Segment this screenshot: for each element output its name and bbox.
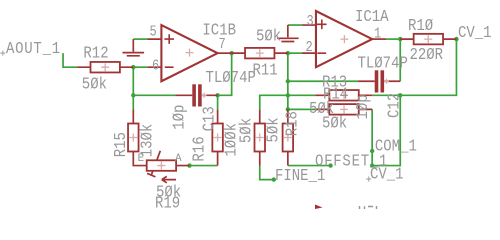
svg-text:R15: R15	[111, 132, 131, 157]
svg-text:CV_1: CV_1	[458, 23, 492, 43]
svg-text:7: 7	[219, 37, 226, 54]
svg-text:CV_1: CV_1	[370, 164, 404, 184]
svg-text:5: 5	[150, 25, 157, 42]
svg-text:AOUT_1: AOUT_1	[6, 39, 61, 59]
svg-text:R12: R12	[83, 43, 108, 63]
svg-text:TLØ74P: TLØ74P	[358, 53, 408, 73]
svg-text:R19: R19	[155, 193, 180, 209]
svg-text:R16: R16	[189, 136, 209, 161]
svg-text:3: 3	[307, 14, 314, 31]
svg-text:6: 6	[152, 58, 159, 75]
svg-text:22ØR: 22ØR	[410, 45, 444, 65]
svg-text:E: E	[138, 153, 145, 165]
svg-text:1Øp: 1Øp	[353, 94, 373, 119]
svg-text:5Øk: 5Øk	[322, 113, 347, 133]
svg-text:A: A	[175, 153, 182, 165]
svg-text:5Øk: 5Øk	[256, 26, 281, 46]
svg-text:5Øk: 5Øk	[263, 117, 283, 142]
svg-text:C13: C13	[199, 106, 219, 131]
svg-text:R11: R11	[253, 60, 278, 80]
svg-text:COM_1: COM_1	[375, 136, 417, 156]
svg-text:2: 2	[306, 40, 313, 57]
svg-text:TLØ74P: TLØ74P	[206, 68, 256, 88]
svg-text:R18: R18	[283, 111, 303, 136]
svg-text:5Øk: 5Øk	[236, 118, 256, 143]
svg-text:IC1A: IC1A	[355, 7, 389, 27]
svg-text:1: 1	[374, 26, 381, 43]
svg-text:R1Ø: R1Ø	[408, 16, 433, 36]
svg-text:1Øp: 1Øp	[169, 105, 189, 130]
svg-text:C12: C12	[384, 93, 404, 118]
svg-text:5Øk: 5Øk	[82, 74, 107, 94]
